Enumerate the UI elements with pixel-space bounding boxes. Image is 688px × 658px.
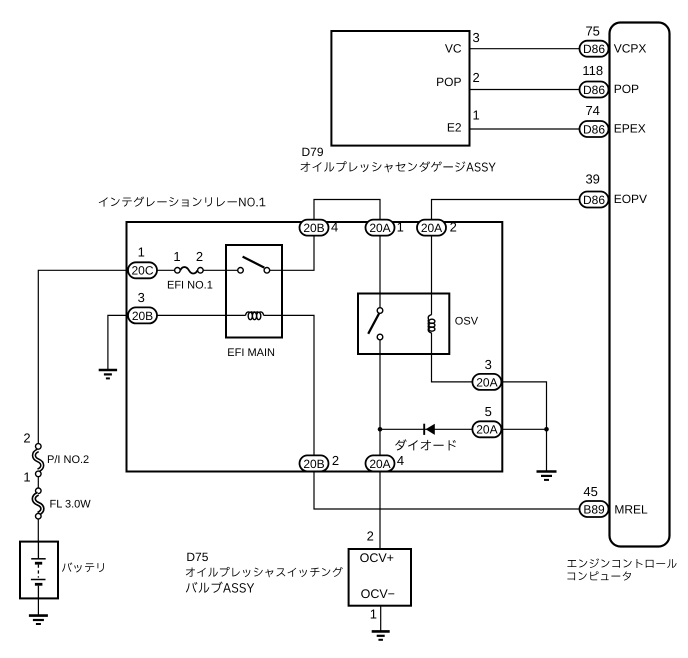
junction [378,427,383,432]
svg-text:2: 2 [23,431,30,446]
svg-text:3: 3 [138,290,145,305]
svg-text:2: 2 [196,249,203,264]
wire OSV coil to 20A(3) [432,333,473,382]
svg-text:EPEX: EPEX [614,122,646,136]
svg-text:VC: VC [445,41,462,55]
ECU engine control computer box [610,23,670,547]
wire 20A(3) to ground [501,382,546,471]
relay OSV box [358,294,449,355]
svg-text:2: 2 [332,453,339,468]
battery cells [31,542,46,599]
OSV switch contact bottom [377,334,383,340]
svg-text:FL 3.0W: FL 3.0W [50,499,92,511]
svg-text:2: 2 [473,70,480,85]
svg-text:D86: D86 [583,42,605,56]
integration relay NO.1 box [127,222,503,472]
terminal 20A (3) right [472,374,501,390]
wire 20B(3) to EFI MAIN coil [157,314,246,316]
wire 20A(5) to ground wire [501,428,546,430]
svg-text:2: 2 [450,220,457,235]
svg-text:MREL: MREL [614,502,648,516]
EFI MAIN switch contact right [264,268,270,274]
wire 20A(2) to OSV coil [431,236,433,315]
svg-text:P/I NO.2: P/I NO.2 [47,454,89,466]
label: diode (ダイオード) [395,439,456,450]
label: computer (コンピュータ) [567,571,631,580]
svg-text:20B: 20B [303,221,324,235]
wire OCV- to ground [380,606,382,631]
svg-text:4: 4 [331,220,338,235]
terminal 20A (1) top [366,220,395,236]
diode (cathode bar) [423,424,425,435]
connector D86 VCPX [580,41,609,57]
svg-text:75: 75 [585,23,599,38]
fuse terminal 2 [198,268,204,274]
fusible link FL 3.0W element [34,494,43,514]
fuse EFI NO.1 element [180,267,197,273]
svg-text:D86: D86 [583,83,605,97]
svg-text:74: 74 [585,103,599,118]
svg-text:20A: 20A [476,423,497,437]
svg-text:OSV: OSV [455,316,479,328]
fusible link FL terminal bottom [36,513,42,519]
wire E2 to EPEX [470,128,580,130]
svg-text:20A: 20A [369,221,390,235]
connector D86 POP [580,82,609,98]
diode (arrow) [426,424,435,435]
wire 20B(2) to MREL [314,472,580,510]
svg-text:OCV+: OCV+ [360,551,394,565]
OSV relay coil [428,315,435,333]
wire 20B(3) to ground [108,315,128,369]
svg-text:1: 1 [138,244,145,259]
svg-text:20A: 20A [369,457,390,471]
svg-text:EFI MAIN: EFI MAIN [227,347,275,359]
EFI MAIN relay coil [246,312,264,320]
terminal 20B (2) bottom [300,455,329,471]
svg-text:5: 5 [485,404,492,419]
svg-text:45: 45 [583,484,597,499]
wire VC to VCPX [470,48,580,50]
svg-text:POP: POP [614,82,639,96]
EFI MAIN switch contact left [238,268,244,274]
svg-text:1: 1 [173,249,180,264]
svg-text:POP: POP [436,75,461,89]
svg-text:20C: 20C [131,264,153,278]
svg-text:1: 1 [370,606,377,621]
wire 20A(4) to OCV+ [379,472,381,550]
svg-text:4: 4 [397,453,404,468]
svg-text:E2: E2 [447,120,462,134]
OSV switch blade [368,313,379,334]
ground (OCV) [372,631,390,639]
label: battery (バッテリ) [62,562,104,572]
EFI MAIN switch blade [243,257,265,268]
svg-text:B89: B89 [583,502,605,516]
connector B89 MREL [580,501,609,517]
label: valve ASSY (バルブASSY) [186,582,254,593]
svg-text:D86: D86 [583,193,605,207]
battery box [20,542,58,599]
svg-text:2: 2 [367,529,374,544]
svg-text:OCV−: OCV− [361,587,395,601]
D75 oil pressure switching valve box [349,549,411,606]
relay EFI MAIN box [226,245,282,338]
svg-text:EFI NO.1: EFI NO.1 [167,280,213,292]
fusible link FL terminal top [36,488,42,494]
label: integration relay NO.1 (インテグレーションリレーNO.1) [99,197,266,207]
wire POP to POP [470,89,580,91]
terminal 20C (1) left [128,262,157,278]
svg-text:1: 1 [23,470,30,485]
wire 20C to fuse [157,269,175,271]
svg-text:118: 118 [582,63,603,78]
fuse P/I NO.2 terminal bottom [36,471,42,477]
svg-text:VCPX: VCPX [614,41,647,55]
wire 20A(1) to OSV switch [379,236,381,308]
OSV switch contact top [377,308,383,314]
label: oil pressure switching (オイルプレッシャスイッチング) [186,567,343,577]
wire 20C to fuse P/I NO.2 [38,270,128,443]
fuse P/I NO.2 element [34,450,42,470]
terminal 20A (5) right [472,421,501,437]
svg-text:20A: 20A [421,221,442,235]
wire OSV switch to 20A(4) [379,340,381,456]
svg-text:1: 1 [397,220,404,235]
svg-text:39: 39 [585,171,599,186]
label: oil pressure sender gauge ASSY (オイルプレッシャセンダゲージASSY) [300,161,495,172]
label: engine control (エンジンコントロール) [567,558,676,568]
terminal 20B (3) left [128,307,157,323]
svg-text:3: 3 [485,357,492,372]
junction [544,427,549,432]
svg-text:20A: 20A [476,375,497,389]
D79 oil pressure sender gauge box [331,31,469,146]
svg-text:1: 1 [473,108,480,123]
svg-text:D79: D79 [302,145,324,159]
ground (right) [537,472,557,480]
terminal 20A (2) top [417,220,446,236]
svg-text:D86: D86 [583,122,605,136]
terminal 20A (4) bottom [366,455,395,471]
wire fuse to fusible link [37,477,39,488]
wire EFI MAIN coil to 20B(2) [264,315,314,455]
fuse P/I NO.2 terminal top [36,444,42,450]
wire 20A(2) to EOPV [432,200,580,220]
svg-text:3: 3 [473,30,480,45]
wire fuse to EFI MAIN switch [203,269,238,271]
wire fusible link to battery [37,519,39,542]
svg-text:20B: 20B [132,309,153,323]
wire bridge 20B(4) to 20A(1) [314,200,380,220]
ground (integration relay) [99,370,117,378]
terminal 20B (4) top [300,220,329,236]
ground (battery) [29,616,48,624]
svg-text:D75: D75 [186,550,208,564]
svg-text:EOPV: EOPV [614,192,647,206]
wire battery to ground [37,598,39,615]
wire EFI MAIN switch to 20B(4) [270,236,314,271]
wire diode to 20A(5) [380,428,472,430]
svg-text:20B: 20B [303,457,324,471]
connector D86 EOPV [580,192,609,208]
fuse terminal 1 [175,268,181,274]
connector D86 EPEX [580,121,609,137]
